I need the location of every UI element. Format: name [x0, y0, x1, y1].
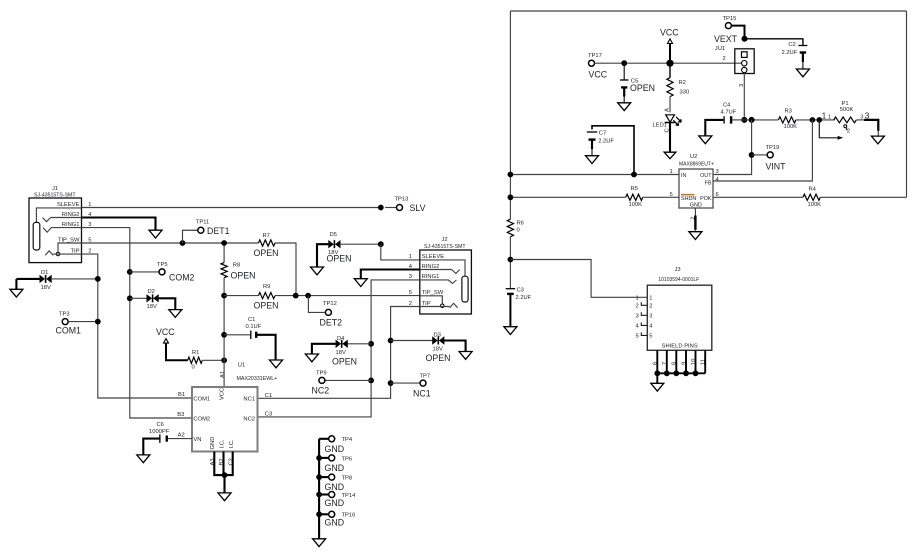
connector J1 SJ-43515TS-SMT	[29, 198, 82, 263]
svg-text:3: 3	[649, 314, 652, 320]
svg-text:GND: GND	[325, 498, 345, 508]
svg-text:TP4: TP4	[342, 437, 353, 443]
node FB junction	[810, 117, 816, 123]
svg-text:TP13: TP13	[395, 197, 409, 203]
svg-text:1000PF: 1000PF	[149, 429, 170, 435]
svg-text:VINT: VINT	[766, 161, 787, 171]
svg-text:RING2: RING2	[62, 212, 80, 218]
svg-text:OPEN: OPEN	[630, 83, 655, 93]
svg-text:MAX8869EUT+: MAX8869EUT+	[679, 162, 714, 168]
svg-text:COM2: COM2	[193, 416, 210, 422]
svg-text:7: 7	[662, 362, 668, 365]
svg-text:0: 0	[517, 228, 520, 234]
svg-text:TIP: TIP	[70, 249, 79, 255]
wire VCC rail loop top	[510, 10, 906, 12]
svg-text:SHIELD PINS: SHIELD PINS	[662, 344, 698, 350]
test point TP17 VCC	[589, 60, 595, 66]
node wiper junction	[817, 117, 823, 123]
pin 2 J3 stub	[641, 302, 647, 305]
svg-text:C2: C2	[788, 42, 795, 48]
wire U2 GND down	[694, 208, 696, 216]
diode D2 18V	[127, 295, 133, 301]
connector J2 SJ-43515TS-SMT	[420, 250, 472, 314]
ground at TP column	[313, 539, 326, 547]
svg-text:5: 5	[649, 334, 652, 340]
svg-text:D5: D5	[330, 232, 337, 238]
diode D5 OPEN 18V	[317, 244, 329, 267]
svg-text:P1: P1	[842, 101, 849, 107]
wire J1 TIP down	[82, 254, 193, 398]
svg-text:TP5: TP5	[157, 262, 168, 268]
svg-text:TP7: TP7	[420, 373, 431, 379]
resistor R9 OPEN	[224, 295, 258, 297]
svg-text:R8: R8	[233, 262, 240, 268]
ground at C5	[618, 103, 631, 111]
test point TP8 GND	[316, 474, 322, 480]
node R9 junctions	[293, 293, 299, 299]
ground at J1 RING2	[149, 230, 162, 238]
svg-text:FB: FB	[705, 180, 712, 186]
svg-text:OUT: OUT	[700, 173, 712, 179]
svg-text:5: 5	[635, 334, 638, 340]
svg-text:330: 330	[680, 90, 690, 96]
svg-text:C1: C1	[265, 393, 272, 399]
svg-text:NC2: NC2	[243, 416, 255, 422]
svg-text:5: 5	[409, 290, 412, 296]
resistor R1 0	[188, 357, 203, 363]
svg-text:J1: J1	[52, 186, 58, 192]
svg-text:2: 2	[635, 304, 638, 310]
svg-text:OPEN: OPEN	[327, 254, 352, 264]
svg-text:3: 3	[409, 274, 412, 280]
svg-text:2.2UF: 2.2UF	[516, 295, 532, 301]
node C3 junction	[508, 257, 514, 263]
svg-text:GND: GND	[210, 437, 216, 450]
svg-text:TIP_SW: TIP_SW	[422, 290, 444, 296]
svg-text:MAX20331EWL+: MAX20331EWL+	[237, 376, 278, 382]
ground at P1	[871, 136, 884, 144]
pin 3 J3 stub	[641, 312, 647, 315]
svg-text:NC1: NC1	[413, 388, 431, 398]
svg-text:U2: U2	[690, 154, 697, 160]
svg-text:TP9: TP9	[316, 371, 327, 377]
svg-text:D3: D3	[434, 332, 441, 338]
wire to TP11	[183, 230, 198, 243]
svg-text:R9: R9	[263, 284, 270, 290]
test point TP15 VEXT	[725, 23, 731, 29]
svg-text:TP12: TP12	[323, 301, 337, 307]
pin 9 J3 shield	[685, 350, 687, 373]
wire OUT to rail	[713, 120, 752, 175]
node TP19 junction	[749, 152, 755, 158]
ic U1 MAX20331EWL+	[192, 387, 258, 452]
svg-text:100K: 100K	[629, 202, 643, 208]
ground at D3	[459, 352, 472, 360]
pin 10 J3 shield	[695, 350, 697, 373]
svg-text:C7: C7	[599, 131, 606, 137]
svg-text:18V: 18V	[336, 350, 346, 356]
ground at C2	[796, 69, 809, 77]
svg-text:TP19: TP19	[766, 145, 780, 151]
svg-text:2.2UF: 2.2UF	[782, 50, 798, 56]
pin 11 J3 shield	[704, 350, 706, 373]
wire A1 column	[223, 296, 225, 387]
capacitor C6 1000PF	[168, 438, 192, 440]
svg-text:2: 2	[847, 128, 850, 134]
node DET1 junction	[180, 240, 186, 246]
svg-text:2: 2	[649, 304, 652, 310]
svg-text:SJ-43515TS-SMT: SJ-43515TS-SMT	[34, 192, 76, 198]
svg-text:TIP_SW: TIP_SW	[58, 237, 80, 243]
svg-text:R2: R2	[679, 80, 686, 86]
test point TP5 COM2	[127, 269, 133, 275]
svg-text:GND: GND	[690, 202, 702, 208]
wire J1 RING2 to ground	[82, 218, 156, 231]
test point TP13 SLV	[385, 207, 396, 209]
svg-text:8: 8	[672, 362, 678, 365]
svg-text:2: 2	[409, 301, 412, 307]
wire shield bus	[657, 372, 705, 374]
wire OUT node	[744, 119, 778, 121]
wire POK through R4	[713, 196, 803, 198]
wire SLV to J2 SLEEVE	[381, 244, 420, 260]
svg-text:GND: GND	[325, 463, 345, 473]
svg-text:GND: GND	[325, 482, 345, 492]
capacitor C5 OPEN	[621, 60, 627, 66]
wire IN line	[510, 174, 679, 176]
ground at C6	[137, 455, 150, 463]
wire VCC rail loop left	[509, 11, 511, 219]
svg-text:B3: B3	[177, 412, 184, 418]
svg-text:U1: U1	[238, 362, 245, 368]
wire VEXT to C2	[745, 39, 803, 45]
svg-text:1: 1	[635, 296, 638, 302]
svg-text:D1: D1	[41, 270, 48, 276]
svg-text:SLV: SLV	[410, 203, 426, 213]
svg-text:0.1UF: 0.1UF	[246, 324, 262, 330]
svg-text:2: 2	[723, 56, 726, 62]
svg-text:OPEN: OPEN	[426, 353, 451, 363]
svg-text:OPEN: OPEN	[231, 271, 256, 281]
svg-text:D4: D4	[337, 336, 345, 342]
svg-text:NC2: NC2	[312, 386, 330, 396]
test point column TP4 GND	[318, 439, 320, 539]
ground at U2	[689, 232, 702, 240]
svg-text:10103594-0001LF: 10103594-0001LF	[658, 277, 699, 283]
svg-text:OPEN: OPEN	[254, 248, 279, 258]
svg-text:VCC: VCC	[589, 69, 608, 79]
node VEXT junction	[742, 36, 748, 42]
wire J1 TIP_SW line	[82, 242, 259, 244]
ground at C7	[586, 156, 599, 164]
svg-text:COM2: COM2	[169, 272, 195, 282]
wire JU1 pin3 down	[743, 73, 745, 120]
svg-text:C1: C1	[248, 317, 255, 323]
ground at C3	[504, 327, 517, 335]
wire P1 wiper	[819, 120, 838, 138]
diode D3 OPEN 18V	[388, 338, 394, 344]
svg-text:R7: R7	[263, 233, 270, 239]
ground at D4	[305, 354, 318, 362]
svg-text:11: 11	[701, 359, 707, 365]
ground at J3	[651, 383, 664, 391]
svg-text:R1: R1	[192, 350, 199, 356]
svg-text:18V: 18V	[41, 285, 51, 291]
ic U2 MAX8869EUT+	[679, 169, 713, 208]
svg-text:5: 5	[88, 237, 91, 243]
svg-text:C4: C4	[723, 102, 731, 108]
wire J1 SLEEVE to SLV	[82, 207, 381, 209]
test point TP14 GND	[316, 492, 322, 498]
svg-text:C6: C6	[157, 422, 164, 428]
svg-text:I.C.: I.C.	[219, 439, 225, 448]
jumper JU1	[735, 49, 754, 74]
ground at J2 RING2	[354, 279, 367, 287]
svg-text:TP11: TP11	[196, 219, 209, 225]
svg-text:18V: 18V	[433, 346, 443, 352]
svg-text:C3: C3	[265, 412, 272, 418]
ground at C4	[699, 136, 712, 144]
svg-text:OPEN: OPEN	[332, 356, 357, 366]
ground at LED1	[664, 152, 676, 159]
svg-text:SHDN: SHDN	[681, 196, 696, 202]
test point TP12 DET2	[308, 296, 325, 313]
svg-text:RING2: RING2	[422, 264, 440, 270]
ground at C1	[270, 360, 283, 368]
svg-text:500K: 500K	[840, 107, 854, 113]
svg-text:GND: GND	[325, 444, 345, 454]
wire J2 RING2 to ground	[361, 270, 420, 279]
svg-text:DET2: DET2	[320, 318, 343, 328]
svg-text:R3: R3	[785, 109, 792, 115]
wire rail to J3 pin1	[510, 260, 647, 298]
svg-text:LED1: LED1	[653, 123, 668, 129]
svg-text:SLEEVE: SLEEVE	[57, 202, 80, 208]
capacitor C7 2.2UF	[592, 126, 634, 175]
svg-text:TIP: TIP	[422, 301, 431, 307]
svg-text:J2: J2	[442, 237, 448, 243]
pin 5 J3 stub	[641, 332, 647, 335]
svg-text:VEXT: VEXT	[714, 34, 738, 44]
svg-text:R4: R4	[809, 186, 817, 192]
svg-text:TP3: TP3	[59, 311, 70, 317]
svg-text:COM1: COM1	[193, 396, 210, 402]
svg-text:SJ-43515TS-SMT: SJ-43515TS-SMT	[424, 244, 466, 250]
svg-text:VCC: VCC	[660, 27, 679, 37]
pin 6 J3 shield	[656, 350, 658, 373]
svg-text:VCC: VCC	[219, 388, 225, 400]
svg-text:SLEEVE: SLEEVE	[422, 254, 445, 260]
ground at U1 GND	[218, 493, 231, 501]
pin 4 J3 stub	[641, 322, 647, 325]
wire SHDN line	[510, 196, 625, 198]
svg-text:A2: A2	[178, 433, 185, 439]
svg-text:C3: C3	[517, 288, 524, 294]
pin 7 J3 shield	[666, 350, 668, 373]
resistor R4 100K	[803, 194, 821, 200]
svg-text:1: 1	[822, 111, 827, 121]
svg-text:IN: IN	[681, 173, 686, 179]
svg-text:VN: VN	[193, 437, 201, 443]
capacitor C3 2.2UF	[506, 288, 515, 290]
wire J2 TIP to NC1 column	[258, 307, 420, 399]
svg-text:1: 1	[409, 254, 412, 260]
diode D1 18V	[16, 278, 40, 280]
wire shield bus to ground	[656, 373, 658, 383]
ground at D5	[311, 267, 324, 275]
resistor R6 0	[507, 219, 513, 237]
test point TP19 VINT	[752, 154, 768, 156]
svg-text:B1: B1	[178, 392, 185, 398]
wire J1 RING1 down-left column	[82, 228, 193, 418]
svg-text:100K: 100K	[784, 124, 798, 130]
svg-text:A: A	[665, 108, 671, 112]
svg-text:4.7UF: 4.7UF	[721, 109, 737, 115]
svg-text:GND: GND	[325, 518, 345, 528]
wire J2 RING1 to NC2 column	[258, 280, 420, 417]
svg-text:3: 3	[635, 314, 638, 320]
test point TP11 DET1	[198, 227, 204, 233]
svg-text:OPEN: OPEN	[254, 301, 279, 311]
test point TP6 GND	[316, 455, 322, 461]
svg-text:TP6: TP6	[342, 456, 353, 462]
resistor R8 OPEN (vertical)	[223, 243, 225, 263]
node SLV junction	[378, 205, 384, 211]
wire VCC rail loop right	[906, 11, 908, 197]
wire P1 pin3 to ground	[856, 119, 864, 121]
svg-text:R6: R6	[517, 221, 524, 227]
svg-text:COM1: COM1	[56, 326, 82, 336]
svg-text:0: 0	[192, 365, 195, 371]
resistor R5 100K	[626, 194, 643, 200]
node D1 junction	[95, 276, 101, 282]
svg-text:VCC: VCC	[156, 327, 175, 337]
svg-text:1: 1	[649, 296, 652, 302]
ground at D2	[169, 310, 182, 318]
svg-text:1: 1	[828, 114, 831, 120]
wire U1 bottom pins bracket	[214, 452, 232, 476]
resistor R7 OPEN	[258, 240, 275, 246]
resistor R3 100K	[778, 117, 796, 123]
svg-text:JU1: JU1	[715, 46, 725, 52]
led LED1	[669, 97, 671, 113]
potentiometer P1 500K	[834, 117, 857, 123]
test point TP9 NC2	[368, 378, 374, 384]
svg-text:9: 9	[681, 362, 687, 365]
svg-text:J3: J3	[674, 267, 680, 273]
svg-text:18V: 18V	[147, 304, 157, 310]
svg-text:6: 6	[653, 362, 659, 365]
svg-text:POK: POK	[700, 196, 712, 202]
capacitor C4 4.7UF	[705, 120, 723, 136]
svg-text:I.C.: I.C.	[229, 439, 235, 448]
wire FB to divider	[713, 120, 812, 181]
resistor R2 330	[669, 63, 671, 77]
svg-text:RING1: RING1	[422, 274, 440, 280]
test point TP16 GND	[316, 511, 322, 517]
test point TP3 COM1	[62, 319, 68, 325]
svg-text:A1: A1	[220, 371, 226, 378]
svg-text:100K: 100K	[808, 202, 822, 208]
svg-text:RING1: RING1	[62, 222, 80, 228]
wire R7 right corner down	[275, 243, 296, 296]
capacitor C2 2.2UF	[798, 45, 807, 47]
diode D4 OPEN 18V	[368, 341, 374, 347]
capacitor C1 0.1UF	[221, 332, 227, 338]
svg-text:TP8: TP8	[342, 476, 353, 482]
svg-text:DET1: DET1	[207, 226, 230, 236]
pin 8 J3 shield	[675, 350, 677, 373]
svg-text:TP17: TP17	[588, 53, 602, 59]
ground at D1	[15, 279, 17, 289]
svg-text:10: 10	[691, 359, 697, 365]
svg-text:TP15: TP15	[723, 16, 737, 22]
svg-text:2.2UF: 2.2UF	[598, 139, 614, 145]
test point TP7 NC1	[388, 380, 394, 386]
connector J3 10103594-0001LF	[647, 285, 712, 350]
svg-text:D2: D2	[148, 289, 155, 295]
svg-text:NC1: NC1	[243, 396, 255, 402]
svg-text:R5: R5	[631, 186, 638, 192]
